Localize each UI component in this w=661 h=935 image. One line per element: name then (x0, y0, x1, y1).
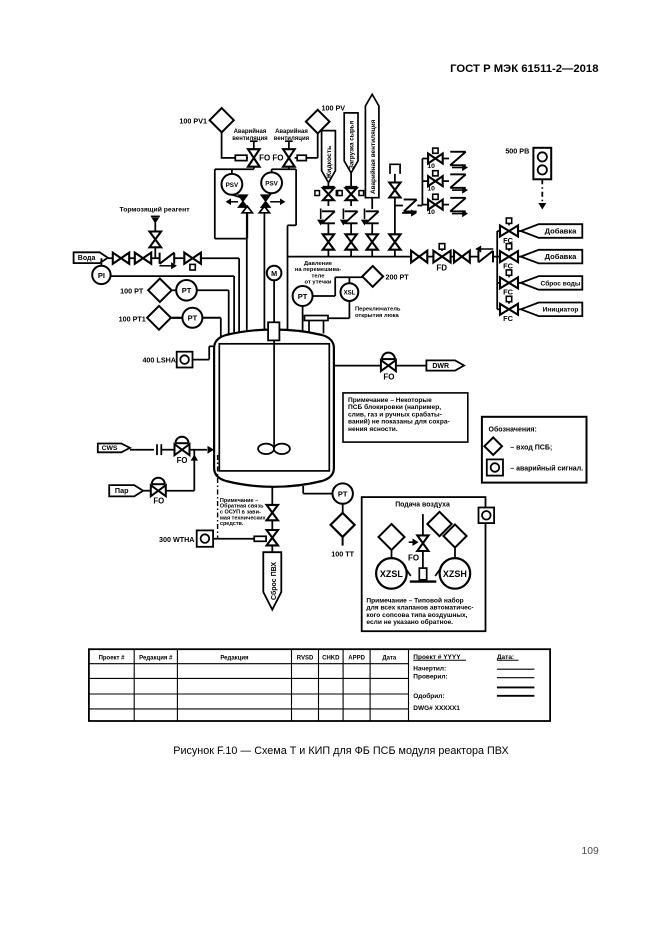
wire (454, 548, 456, 559)
svg-text:вентиляция: вентиляция (274, 136, 310, 142)
wire PT stem to reactor (302, 306, 304, 330)
relief valve PSV2 (261, 172, 282, 193)
wire (172, 289, 177, 291)
svg-text:10: 10 (427, 209, 435, 216)
pressure transmitter PT at agitator (293, 286, 313, 306)
svg-text:Примечание – Типовой набор: Примечание – Типовой набор (366, 596, 463, 604)
wire (171, 317, 183, 319)
wire PSV header left (253, 167, 255, 170)
svg-text:FO: FO (153, 496, 164, 505)
svg-text:Сброс воды: Сброс воды (541, 279, 581, 287)
steam valve FO (152, 478, 165, 485)
svg-text:100 PT: 100 PT (120, 287, 144, 296)
wire (143, 490, 150, 492)
PSB input diamond 100 TT (331, 513, 355, 537)
wire (518, 230, 521, 232)
limit switch XZSL (376, 558, 407, 589)
svg-text:M: M (271, 269, 277, 278)
wire CWS into jacket (190, 449, 208, 451)
line break Z column2 (345, 210, 358, 212)
svg-text:Добавка: Добавка (545, 252, 578, 261)
wire purge cluster riser (421, 159, 423, 206)
svg-text:вентиляция: вентиляция (232, 136, 268, 142)
relief valve PSV1 (222, 174, 243, 195)
manifold isolation valve 2 (454, 251, 462, 263)
water valve 1 (113, 253, 121, 264)
svg-text:для всех клапанов автоматичес-: для всех клапанов автоматичес- (366, 605, 473, 612)
svg-text:PT: PT (338, 490, 348, 499)
svg-text:FO FO: FO FO (259, 154, 283, 163)
PSV2 angle valve with discharge arrow (266, 193, 272, 198)
svg-text:Проверил:: Проверил: (413, 674, 447, 681)
wire (327, 223, 329, 234)
svg-text:100 PT1: 100 PT1 (119, 315, 146, 324)
wire PI to reactor (111, 275, 235, 277)
valve column3 bottom (367, 234, 378, 242)
reactor vessel shell (214, 330, 334, 487)
svg-text:Редакция #: Редакция # (139, 655, 173, 661)
wire inhibitor to water line (154, 247, 156, 258)
limit switch XZSH (440, 558, 471, 589)
pressure transmitter PT (100 PT1) (182, 308, 202, 328)
wire PSV header right (288, 167, 290, 170)
svg-text:CWS: CWS (102, 445, 118, 452)
valve column1 bottom (323, 234, 334, 242)
svg-text:теле: теле (312, 273, 326, 279)
svg-text:Переключатель: Переключатель (355, 307, 401, 313)
svg-text:FD: FD (436, 264, 447, 273)
wire (327, 200, 329, 206)
svg-text:Проект # YYYY: Проект # YYYY (413, 654, 461, 661)
wire (443, 180, 449, 182)
svg-text:Дата:: Дата: (497, 654, 514, 661)
svg-text:ГОСТ Р МЭК 61511-2—2018: ГОСТ Р МЭК 61511-2—2018 (450, 63, 598, 75)
air manifold bar (410, 580, 437, 582)
stream flag Инициатор (521, 303, 583, 317)
wire (470, 256, 478, 258)
wire column1 (327, 183, 329, 188)
svg-text:XZSH: XZSH (443, 569, 467, 579)
svg-text:нения ясности.: нения ясности. (348, 426, 398, 433)
PSB input diamond 100 PT (148, 279, 171, 302)
wire column4 to manifold (394, 250, 396, 257)
svg-text:– вход ПСБ;: – вход ПСБ; (510, 444, 552, 451)
svg-text:FC: FC (503, 314, 514, 323)
agitator seal housing (268, 322, 279, 340)
wire motor shaft (273, 280, 275, 322)
PSB input diamond 100 PV1 (210, 108, 234, 132)
svg-text:от утечки: от утечки (305, 280, 332, 286)
wire reactor drain (271, 487, 273, 505)
wire (174, 257, 184, 259)
svg-text:Вода: Вода (78, 255, 96, 262)
flow restrictor on air line (419, 568, 426, 580)
wire column1 to manifold (327, 250, 329, 257)
alarm box 400 LSHA (177, 352, 193, 368)
wire XSL to manhole (348, 301, 350, 318)
pressure transmitter PT bottom (333, 483, 353, 503)
wire (443, 158, 449, 160)
wire steam to riser (166, 490, 195, 492)
wire column2 (350, 173, 352, 188)
valve column4 bottom (389, 234, 400, 242)
legend alarm symbol (487, 459, 503, 475)
control valve FD (439, 244, 445, 250)
vent stub П column4 (390, 164, 400, 174)
wire PT to XSL loop (313, 295, 336, 297)
wire (518, 308, 521, 310)
legend box (482, 417, 587, 483)
reactor inner jacket (219, 344, 329, 471)
water check valve (159, 253, 161, 264)
cooling water valve FO (176, 437, 189, 444)
wire (151, 257, 159, 259)
wire (396, 365, 427, 367)
svg-text:PT: PT (298, 292, 308, 301)
svg-text:FO: FO (177, 456, 188, 465)
svg-text:FO: FO (383, 372, 394, 381)
valve column2 bottom (345, 234, 356, 242)
feed flag Загрузка сырья (344, 113, 358, 173)
svg-text:средств.: средств. (220, 521, 244, 527)
svg-text:если не указано обратное.: если не указано обратное. (366, 618, 453, 626)
control valve column2 (350, 187, 352, 189)
line break Z purge 1 (450, 151, 466, 153)
vent flag Аварийная вентиляция (365, 94, 379, 197)
svg-text:RVSD: RVSD (297, 655, 314, 661)
PSB input diamond 1 above XZSH (427, 512, 451, 536)
wire (342, 504, 344, 514)
line break Z purge 2 (450, 173, 466, 175)
label Подача воздуха (384, 498, 456, 507)
agitator impeller (258, 444, 274, 454)
svg-text:Инициатор: Инициатор (543, 307, 579, 314)
inhibitor valve (150, 232, 162, 240)
wire (271, 545, 273, 552)
svg-text:– аварийный сигнал.: – аварийный сигнал. (510, 465, 583, 473)
addition control valve FC 1 (497, 230, 500, 232)
line break Z purge 3 (450, 197, 466, 199)
valve column4 top (389, 183, 400, 191)
svg-text:XZSL: XZSL (380, 569, 404, 579)
svg-text:Тормозящий реагент: Тормозящий реагент (120, 206, 191, 214)
wire (130, 449, 154, 451)
inhibitor feed arrow (151, 215, 160, 217)
level switch 400 LSHA nozzle (209, 345, 214, 347)
branch to purge valves (395, 205, 403, 207)
svg-text:Жидкость: Жидкость (326, 146, 333, 180)
svg-text:на перемешива-: на перемешива- (295, 267, 341, 273)
pressure indicator PI (92, 266, 110, 284)
addition control valve FC 3 (497, 282, 500, 284)
legend diamond PSB input (484, 437, 502, 455)
wire (493, 256, 497, 258)
svg-text:Обозначения:: Обозначения: (489, 426, 537, 434)
svg-text:DWR: DWR (432, 363, 449, 370)
svg-text:Аварийная вентиляция: Аварийная вентиляция (369, 119, 377, 194)
wire XZSH tap (435, 567, 441, 576)
alarm box 300 WTHA (197, 530, 213, 546)
svg-text:Сброс ПВХ: Сброс ПВХ (270, 562, 278, 600)
svg-text:PI: PI (98, 271, 105, 280)
wire from 100 PV1 to vent valve (221, 132, 223, 158)
wire (518, 256, 521, 258)
wire (265, 538, 268, 540)
note box PSB interlocks (343, 393, 468, 442)
wire (443, 204, 449, 206)
wire (371, 223, 373, 234)
wire LSHA (193, 359, 210, 361)
svg-text:400 LSHA: 400 LSHA (142, 356, 176, 365)
svg-text:открытия люка: открытия люка (355, 313, 400, 319)
svg-text:Проект #: Проект # (99, 655, 126, 661)
stream flag CWS (98, 444, 130, 453)
svg-text:слив, газ и ручных срабаты-: слив, газ и ручных срабаты- (348, 410, 442, 418)
manhole with lid (308, 321, 310, 333)
svg-text:PSV: PSV (226, 182, 239, 189)
svg-text:100 TT: 100 TT (331, 550, 354, 559)
svg-text:100 PV: 100 PV (322, 104, 346, 113)
wire column2 to manifold (350, 250, 352, 257)
wire water line (108, 257, 113, 259)
svg-text:APPD: APPD (348, 655, 365, 661)
wire main feed manifold (288, 256, 412, 258)
water valve 2 (135, 253, 143, 264)
PSB input diamond 100 PV (306, 110, 330, 134)
PSV1 angle valve with discharge arrow (232, 195, 243, 198)
svg-text:Дата: Дата (382, 655, 397, 661)
svg-text:Аварийная: Аварийная (234, 128, 267, 135)
svg-text:200 PT: 200 PT (386, 273, 410, 282)
hatch switch XSL (341, 283, 359, 301)
stream flag Добавка (521, 224, 583, 238)
pushbutton station 500 PB (533, 148, 551, 180)
vent control valve FO left (253, 141, 255, 149)
svg-text:10: 10 (427, 186, 435, 193)
svg-text:Начертил:: Начертил: (413, 666, 446, 673)
svg-text:10: 10 (427, 163, 435, 170)
wire (295, 157, 298, 159)
svg-text:Подача воздуха: Подача воздуха (395, 502, 450, 509)
wire (451, 256, 454, 258)
wire addition header riser (496, 231, 498, 309)
wire (394, 198, 396, 235)
svg-text:FO: FO (408, 553, 419, 562)
air valve FO (417, 535, 428, 543)
wire (422, 551, 424, 568)
svg-text:ПСБ блокировки (например,: ПСБ блокировки (например, (348, 403, 441, 411)
addition control valve FC 2 (497, 256, 500, 258)
agitator shaft (273, 340, 275, 446)
wire (161, 449, 174, 451)
svg-text:PSV: PSV (265, 180, 278, 187)
wire (271, 520, 273, 530)
line break Z on branch (404, 199, 417, 201)
svg-text:Давление: Давление (304, 261, 333, 267)
wire column3 (371, 198, 373, 209)
svg-text:109: 109 (582, 846, 599, 857)
wire steam riser (193, 450, 195, 491)
stream flag Сброс ПВХ (263, 552, 281, 610)
line break Z column3 (366, 210, 379, 212)
signal wire jacket to WTHA (217, 455, 219, 539)
inline restrictor (254, 536, 266, 541)
line break Z column1 (322, 210, 335, 212)
vent control valve FO right (288, 141, 290, 149)
wire to 100 PV diamond (306, 157, 317, 159)
wire 100 PT to reactor (197, 289, 229, 291)
drain valve 2 (267, 530, 278, 538)
wire (247, 157, 248, 159)
manifold isolation valve (411, 251, 419, 263)
feed flag Жидкость (322, 131, 336, 183)
wire (342, 537, 344, 546)
svg-text:XSL: XSL (344, 291, 356, 297)
svg-text:Одобрил:: Одобрил: (413, 692, 444, 700)
wire (129, 257, 135, 259)
stream flag Сброс воды (521, 276, 583, 290)
air supply assembly box (362, 497, 486, 631)
revision table (89, 649, 550, 721)
svg-text:Рисунок F.10 — Схема Т и КИП д: Рисунок F.10 — Схема Т и КИП для ФБ ПСБ … (173, 745, 508, 757)
drain valve 1 (267, 505, 278, 513)
PSB input diamond 100 PT1 (147, 306, 171, 330)
svg-text:кого сопсова типа воздушных,: кого сопсова типа воздушных, (366, 612, 467, 619)
addition control valve FC 4 (497, 308, 500, 310)
svg-text:FC: FC (503, 288, 514, 297)
svg-text:DWG# XXXXX1: DWG# XXXXX1 (413, 705, 460, 712)
wire (350, 200, 352, 206)
wire (350, 223, 352, 234)
control valve column1 (327, 187, 329, 189)
stream flag DWR (426, 360, 464, 370)
svg-text:100 PV1: 100 PV1 (179, 117, 207, 126)
wire column3 to manifold (371, 250, 373, 257)
signal wire from 500 PB (541, 179, 543, 202)
reducer on vent line left (235, 155, 247, 160)
wire WTHA to drain (213, 538, 254, 540)
purge control valve 10-2 (422, 180, 428, 182)
svg-text:500 PB: 500 PB (505, 147, 529, 156)
svg-text:CHKD: CHKD (322, 655, 340, 661)
svg-text:PT: PT (182, 286, 192, 295)
wire PSV1 drain to reactor (215, 238, 247, 240)
wire reactor bottom to PT (302, 486, 304, 494)
PSB input diamond 200 PT (362, 266, 383, 287)
wire PSV2 frame drop to reactor (288, 224, 297, 226)
purge control valve 10-3 (422, 204, 428, 206)
svg-text:ваний) не показаны для сохра-: ваний) не показаны для сохра- (348, 418, 450, 426)
water control valve (184, 253, 192, 264)
svg-text:Примечание – Некоторые: Примечание – Некоторые (348, 397, 432, 404)
agitator motor M (267, 266, 282, 281)
wire (518, 282, 521, 284)
wire 100 PT1 to reactor (202, 317, 220, 319)
pressure transmitter PT (100 PT) (176, 280, 197, 301)
stream flag Добавка (521, 250, 583, 264)
air line (422, 514, 424, 535)
svg-text:Аварийная: Аварийная (275, 128, 308, 135)
PSB input diamond above XZSL (379, 524, 405, 550)
wire (391, 550, 393, 558)
wire (394, 174, 396, 183)
svg-text:Загрузка сырья: Загрузка сырья (349, 120, 356, 169)
purge control valve 10-1 (422, 158, 428, 160)
wire water to reactor (201, 257, 239, 259)
svg-text:Редакция: Редакция (220, 655, 249, 661)
reducer on vent line right (297, 155, 306, 160)
svg-text:Пар: Пар (115, 486, 129, 495)
alarm symbol on air box (479, 508, 495, 524)
spectacle blind (156, 444, 158, 455)
check valve on manifold (477, 251, 479, 263)
wire reactor vent right (334, 365, 381, 367)
svg-text:Добавка: Добавка (545, 226, 578, 235)
wire XZSL tap (405, 567, 411, 576)
stream flag Вода (74, 252, 108, 263)
svg-text:300 WTHA: 300 WTHA (159, 535, 195, 544)
svg-text:FC: FC (503, 261, 514, 270)
PSB input diamond 2 above XZSH (443, 524, 466, 547)
vent control valve FO to DWR (382, 353, 395, 359)
wire (427, 256, 433, 258)
svg-text:PT: PT (188, 314, 198, 323)
stream flag Пар (109, 485, 143, 496)
